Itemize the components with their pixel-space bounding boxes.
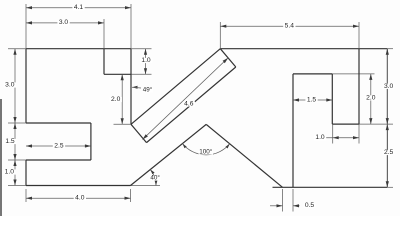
svg-text:1.5: 1.5 (5, 138, 15, 145)
svg-text:49°: 49° (143, 85, 153, 93)
svg-text:0.5: 0.5 (305, 202, 315, 209)
left edge upper (25, 49, 27, 123)
dimension 4.0 bottom (26, 189, 131, 202)
left pocket bottom edge (26, 159, 91, 161)
dimension 1.0 notch (131, 49, 152, 75)
band left cap (131, 124, 147, 142)
right pocket right wall (331, 74, 333, 144)
svg-text:3.0: 3.0 (384, 83, 394, 90)
dimension 4.1 top (26, 4, 131, 49)
center wall (130, 49, 132, 125)
notch bottom edge (104, 73, 152, 75)
vee right leg (206, 124, 282, 187)
dimension 3.0 left (4, 49, 26, 123)
angle 40 deg (150, 170, 161, 186)
svg-text:2.0: 2.0 (111, 96, 121, 103)
svg-text:1.0: 1.0 (315, 134, 325, 141)
bottom-left edge (26, 185, 160, 187)
svg-text:4.6: 4.6 (184, 101, 194, 108)
dimension 1.0 left (3, 160, 26, 186)
right ledge edge (332, 123, 393, 125)
svg-text:4.1: 4.1 (74, 4, 84, 11)
angle 100 deg (183, 144, 230, 156)
svg-text:2.5: 2.5 (54, 143, 64, 150)
dimension 0.5 bottom (270, 189, 316, 212)
band bottom edge (147, 67, 236, 143)
left border artifact (0, 99, 2, 216)
svg-text:4.0: 4.0 (75, 195, 85, 202)
right pocket left wall (292, 74, 294, 187)
svg-text:1.5: 1.5 (307, 96, 317, 103)
left edge lower (25, 160, 27, 186)
right pocket top edge (293, 73, 375, 75)
dimension 3.0 right (383, 49, 395, 124)
bottom-right edge (273, 186, 394, 188)
svg-text:3.0: 3.0 (59, 19, 69, 26)
top-right edge (220, 48, 393, 50)
svg-text:1.0: 1.0 (5, 169, 15, 176)
svg-text:1.0: 1.0 (141, 57, 151, 64)
svg-text:100°: 100° (199, 148, 213, 156)
dimension 2.0 left (110, 74, 131, 124)
svg-text:2.0: 2.0 (366, 94, 376, 101)
vee left leg (131, 124, 207, 185)
left pocket right wall (90, 123, 92, 160)
dimension 2.0 right (365, 74, 377, 124)
dimension 5.4 top (220, 22, 359, 49)
notch left wall (103, 49, 105, 75)
dimension 1.5 left (4, 123, 26, 160)
right inner wall (358, 22, 360, 144)
dimension 4.6 band (143, 58, 229, 140)
svg-text:2.5: 2.5 (384, 149, 394, 156)
dimension 1.5 right (293, 96, 332, 103)
svg-text:5.4: 5.4 (285, 23, 295, 30)
band right cap (220, 49, 236, 67)
right edge (386, 49, 388, 188)
dimension 3.0 top (26, 19, 104, 49)
svg-text:40°: 40° (150, 174, 160, 182)
svg-text:3.0: 3.0 (5, 82, 15, 89)
dimension 2.5 left (26, 143, 91, 150)
dimension 2.5 right (383, 124, 395, 187)
band top edge (131, 49, 220, 125)
top-left edge (26, 48, 131, 50)
left pocket top edge (26, 122, 91, 124)
angle 49 deg (132, 85, 153, 93)
dimension 1.0 right (314, 134, 359, 141)
